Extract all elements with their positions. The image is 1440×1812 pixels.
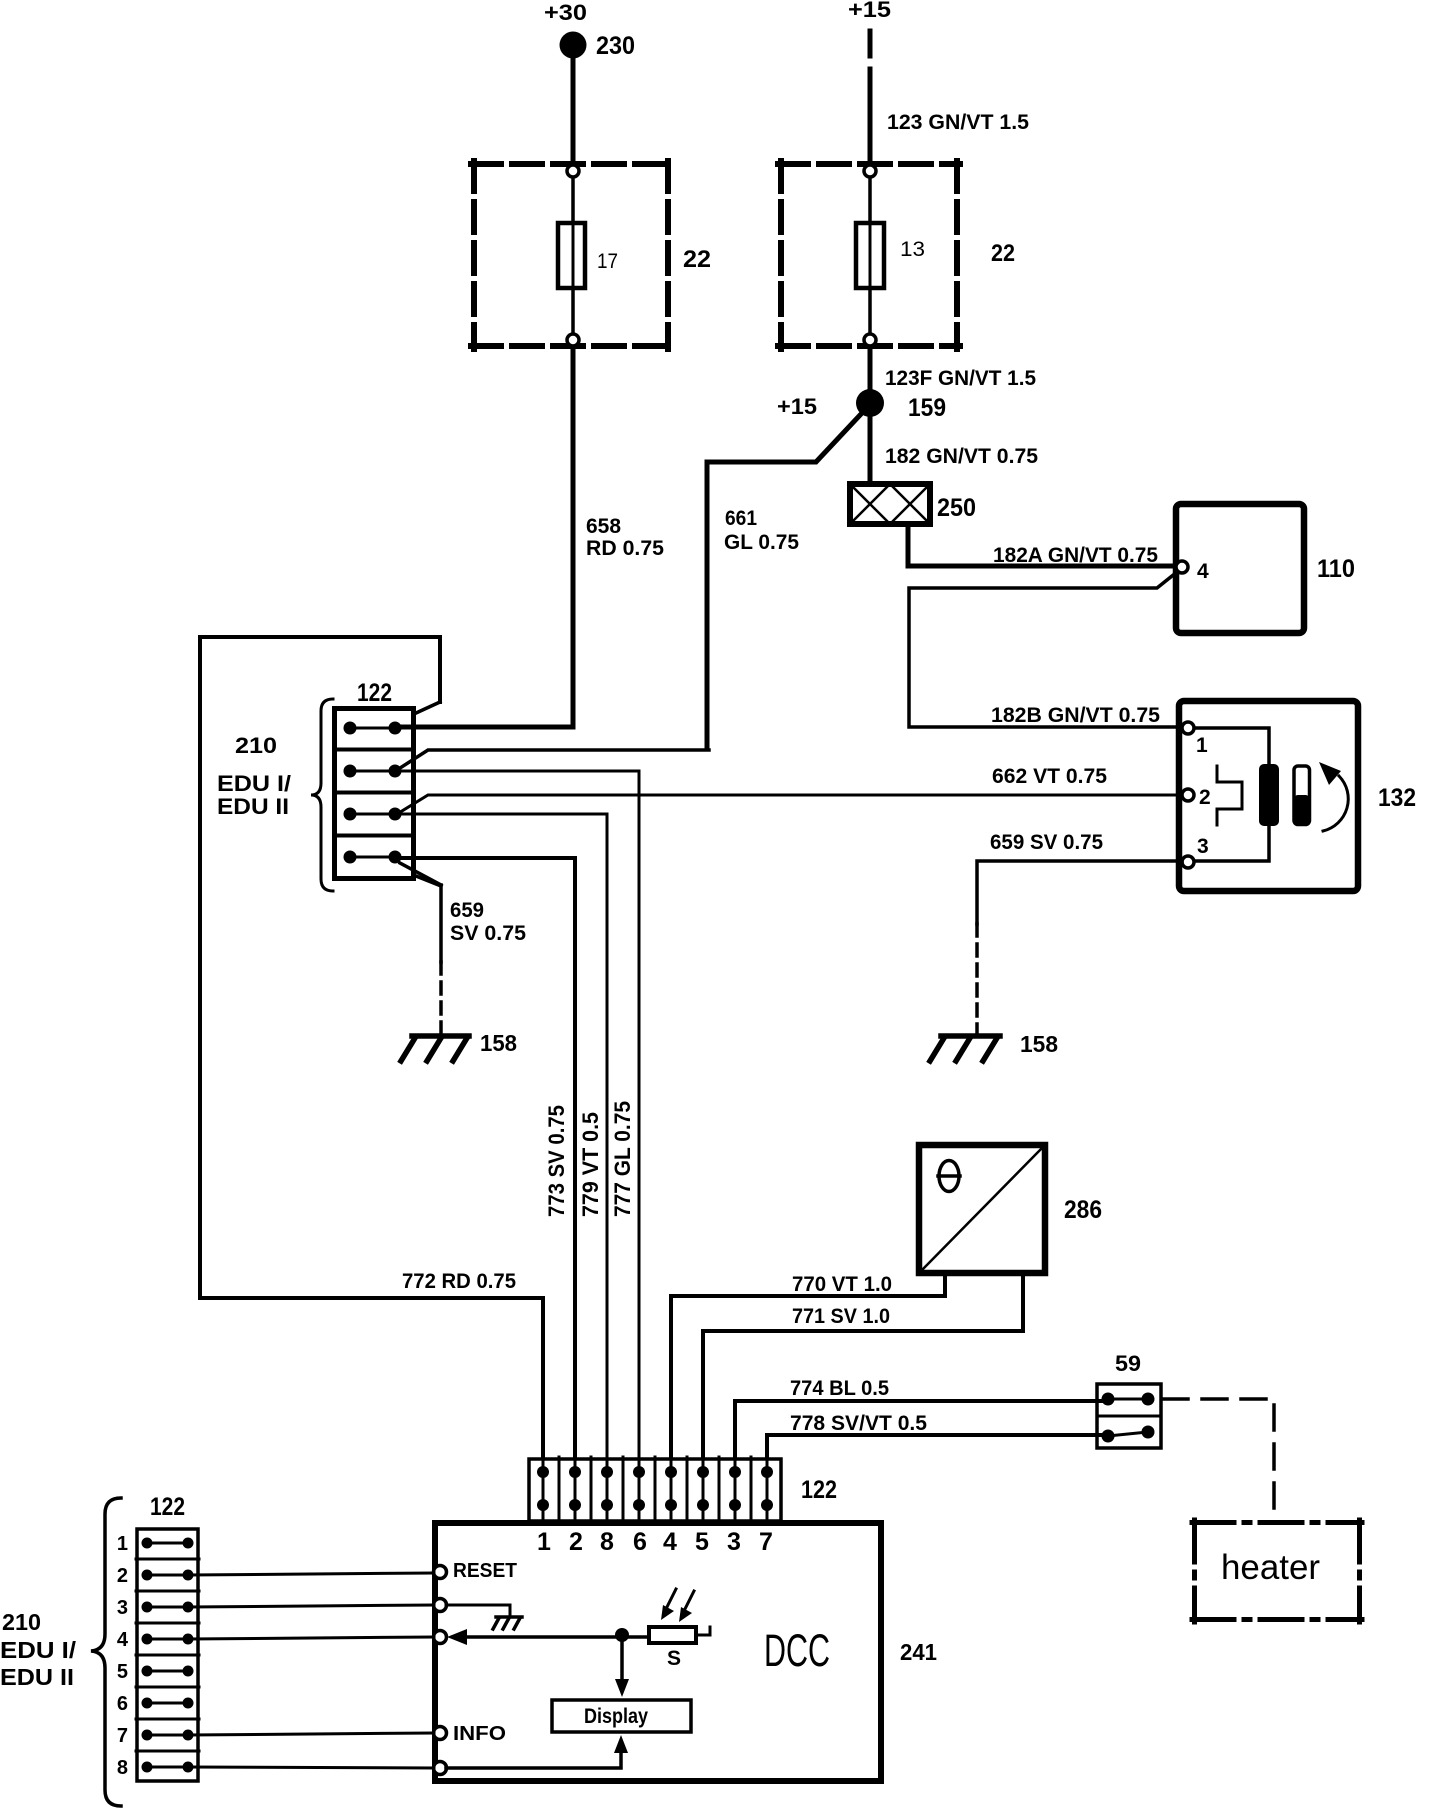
- light arrow 1: [667, 1589, 676, 1607]
- terminal circle bottom fuse 13: [864, 334, 876, 346]
- svg-text:4: 4: [117, 1629, 129, 1651]
- heater box (dash-dot): [1192, 1520, 1362, 1622]
- fuse 17: [558, 223, 585, 288]
- svg-text:122: 122: [357, 679, 392, 707]
- wire to internal ground: [446, 1605, 510, 1614]
- wire EDU row4 to sensor pin: [188, 1637, 434, 1639]
- wire through fuse 17: [571, 178, 575, 333]
- junction dot: [615, 1628, 629, 1642]
- svg-text:132: 132: [1378, 784, 1416, 812]
- box 110: [1176, 504, 1304, 633]
- indicator bar (half filled): [1294, 766, 1310, 825]
- svg-text:22: 22: [683, 246, 711, 273]
- pin 2 of 132: [1182, 789, 1194, 801]
- svg-text:RD 0.75: RD 0.75: [586, 537, 664, 560]
- wire 182A GN/VT 0.75: [908, 527, 1176, 566]
- svg-text:773 SV 0.75: 773 SV 0.75: [544, 1105, 569, 1217]
- wire +15 dashed to fuse 13: [868, 31, 873, 88]
- svg-text:3: 3: [727, 1528, 741, 1556]
- svg-text:159: 159: [908, 394, 946, 422]
- wire 59 to heater (dashed): [1163, 1399, 1274, 1520]
- svg-text:5: 5: [117, 1661, 128, 1683]
- temperature sensor 286: [919, 1145, 1045, 1273]
- svg-text:8: 8: [117, 1757, 128, 1779]
- wire 123F GN/VT 1.5: [868, 347, 873, 390]
- svg-text:6: 6: [117, 1693, 128, 1715]
- svg-text:RESET: RESET: [453, 1560, 517, 1582]
- svg-text:110: 110: [1317, 555, 1355, 583]
- svg-text:158: 158: [480, 1030, 517, 1056]
- wire EDU row8 to display pin: [188, 1767, 434, 1768]
- svg-text:658: 658: [586, 515, 621, 538]
- pin row 4: [350, 856, 395, 859]
- svg-text:4: 4: [1197, 560, 1209, 583]
- pin row 2: [350, 770, 395, 773]
- photoresistor S: [649, 1627, 696, 1643]
- svg-text:661: 661: [725, 507, 757, 530]
- pin ground: [434, 1599, 447, 1612]
- internal ground symbol: [493, 1617, 522, 1629]
- svg-text:3: 3: [117, 1597, 128, 1619]
- svg-text:659 SV 0.75: 659 SV 0.75: [990, 831, 1103, 854]
- node 230 junction: [560, 32, 587, 59]
- svg-text:123F GN/VT 1.5: 123F GN/VT 1.5: [885, 367, 1036, 390]
- connector 122 (EDU lower): [137, 1529, 198, 1781]
- wire 661 GL 0.75: [707, 414, 861, 748]
- wiper step symbol: [1217, 766, 1242, 825]
- terminal circle top fuse 13: [864, 165, 876, 177]
- wire 659 SV 0.75 (left, to ground): [400, 863, 441, 885]
- rotation arc arrow: [1323, 776, 1348, 831]
- terminal circle top fuse 17: [567, 165, 579, 177]
- svg-text:8: 8: [600, 1528, 614, 1556]
- svg-text:+15: +15: [848, 0, 891, 22]
- svg-text:13: 13: [900, 238, 925, 261]
- wire through fuse 13: [868, 178, 872, 333]
- brace EDU upper: [311, 699, 333, 891]
- svg-text:6: 6: [633, 1528, 647, 1556]
- internal wire rheostat to pin3: [1195, 826, 1269, 861]
- wire EDU row2 to RESET: [188, 1573, 434, 1575]
- svg-text:770 VT 1.0: 770 VT 1.0: [792, 1273, 892, 1296]
- svg-text:210: 210: [2, 1609, 41, 1635]
- svg-text:286: 286: [1064, 1196, 1102, 1224]
- svg-text:777 GL 0.75: 777 GL 0.75: [610, 1101, 635, 1217]
- fuse 13: [856, 223, 884, 288]
- box 132 (dimmer rheostat): [1179, 701, 1358, 891]
- connector 250: [850, 484, 930, 524]
- wire 777 GL 0.75: [397, 771, 639, 1457]
- wire 659 SV 0.75 (right): [977, 861, 1182, 924]
- fuse box 22 (right, dashed): [778, 161, 960, 349]
- pin sensor input with arrow: [434, 1631, 447, 1644]
- wire 779 VT 0.5: [397, 814, 607, 1457]
- connector 122 (DCC strip): [529, 1459, 781, 1521]
- terminal circle bottom fuse 17: [567, 334, 579, 346]
- wire 771 SV 1.0: [703, 1276, 1023, 1457]
- svg-text:59: 59: [1115, 1351, 1141, 1376]
- svg-text:+15: +15: [777, 394, 817, 419]
- svg-text:210: 210: [235, 733, 277, 758]
- svg-text:1: 1: [537, 1528, 551, 1556]
- svg-text:182 GN/VT 0.75: 182 GN/VT 0.75: [885, 445, 1038, 468]
- svg-text:778 SV/VT 0.5: 778 SV/VT 0.5: [790, 1412, 927, 1435]
- rheostat element bar: [1259, 764, 1279, 826]
- pin 1 of 132: [1182, 722, 1194, 734]
- svg-text:1: 1: [1196, 734, 1208, 757]
- wire 182 GN/VT 0.75: [868, 417, 873, 484]
- svg-text:3: 3: [1197, 835, 1209, 858]
- svg-text:2: 2: [1199, 786, 1211, 809]
- fuse box 22 (left, dashed): [471, 161, 671, 349]
- svg-text:EDU II: EDU II: [0, 1664, 74, 1690]
- svg-text:1: 1: [117, 1533, 128, 1555]
- svg-text:771 SV 1.0: 771 SV 1.0: [792, 1305, 890, 1328]
- wire 770 VT 1.0: [671, 1276, 945, 1457]
- svg-text:4: 4: [663, 1528, 677, 1556]
- node 159 (+15 junction): [856, 389, 884, 417]
- svg-text:S: S: [667, 1647, 681, 1670]
- pin 3 of 132: [1182, 856, 1194, 868]
- wire +30 to fuse 17: [571, 45, 576, 164]
- svg-text:662 VT 0.75: 662 VT 0.75: [992, 765, 1107, 788]
- svg-text:250: 250: [937, 494, 976, 522]
- svg-text:122: 122: [801, 1476, 837, 1504]
- wire 182B GN/VT 0.75: [909, 572, 1177, 727]
- svg-text:659: 659: [450, 899, 484, 922]
- connector 122 (EDU upper): [335, 709, 414, 879]
- wire junction to Display: [620, 1637, 624, 1680]
- wire EDU row3 to ground pin: [188, 1605, 434, 1607]
- svg-text:182A GN/VT 0.75: 182A GN/VT 0.75: [993, 544, 1158, 567]
- svg-text:5: 5: [695, 1528, 709, 1556]
- DCC unit 241: [435, 1523, 881, 1781]
- svg-text:241: 241: [900, 1639, 937, 1665]
- svg-text:123 GN/VT 1.5: 123 GN/VT 1.5: [887, 111, 1029, 134]
- pin row 3: [350, 813, 395, 816]
- svg-text:158: 158: [1020, 1031, 1058, 1057]
- wire 778 SV/VT 0.5: [767, 1435, 1108, 1457]
- svg-text:heater: heater: [1221, 1548, 1320, 1587]
- brace EDU lower: [91, 1498, 121, 1806]
- DCC pin numbers: [537, 1528, 773, 1556]
- pin 4 of 110: [1176, 561, 1188, 573]
- svg-text:7: 7: [759, 1528, 773, 1556]
- internal wire pin1 to rheostat: [1195, 728, 1269, 766]
- svg-text:122: 122: [150, 1493, 185, 1521]
- svg-text:772 RD 0.75: 772 RD 0.75: [402, 1270, 516, 1293]
- wire 658 RD 0.75: [397, 347, 573, 727]
- svg-text:EDU I/: EDU I/: [0, 1637, 77, 1663]
- svg-text:DCC: DCC: [764, 1625, 830, 1676]
- svg-text:17: 17: [597, 250, 618, 273]
- pin INFO: [434, 1727, 447, 1740]
- wire EDU row7 to INFO: [188, 1733, 434, 1735]
- svg-text:2: 2: [117, 1565, 128, 1587]
- svg-text:182B GN/VT 0.75: 182B GN/VT 0.75: [991, 704, 1160, 727]
- svg-text:2: 2: [569, 1528, 583, 1556]
- svg-text:+30: +30: [544, 0, 587, 25]
- Display box: [552, 1700, 691, 1732]
- svg-text:7: 7: [117, 1725, 128, 1747]
- wire to Display bottom: [446, 1752, 621, 1768]
- EDU 210 box outline / wire 772 run: [200, 637, 543, 1457]
- wire 774 BL 0.5: [735, 1401, 1108, 1457]
- svg-text:EDU I/: EDU I/: [217, 771, 291, 796]
- light arrow 2: [685, 1591, 694, 1609]
- svg-text:779 VT 0.5: 779 VT 0.5: [578, 1112, 603, 1217]
- svg-text:SV 0.75: SV 0.75: [450, 922, 526, 945]
- ground 158 (left): [401, 1036, 469, 1061]
- connector 59: [1097, 1384, 1161, 1448]
- wire 773 SV 0.75: [395, 858, 575, 1457]
- wire 662 VT 0.75: [397, 795, 1182, 814]
- svg-text:GL 0.75: GL 0.75: [724, 531, 799, 554]
- svg-text:Display: Display: [584, 1705, 648, 1728]
- pin display feedback: [434, 1762, 447, 1775]
- ground 158 (right): [930, 1036, 1000, 1061]
- svg-text:22: 22: [991, 240, 1015, 267]
- pin row 1: [350, 727, 395, 730]
- svg-text:230: 230: [596, 32, 635, 60]
- svg-text:INFO: INFO: [453, 1723, 506, 1745]
- svg-text:EDU II: EDU II: [217, 794, 289, 819]
- svg-text:774 BL 0.5: 774 BL 0.5: [790, 1377, 889, 1400]
- pin RESET: [434, 1566, 447, 1579]
